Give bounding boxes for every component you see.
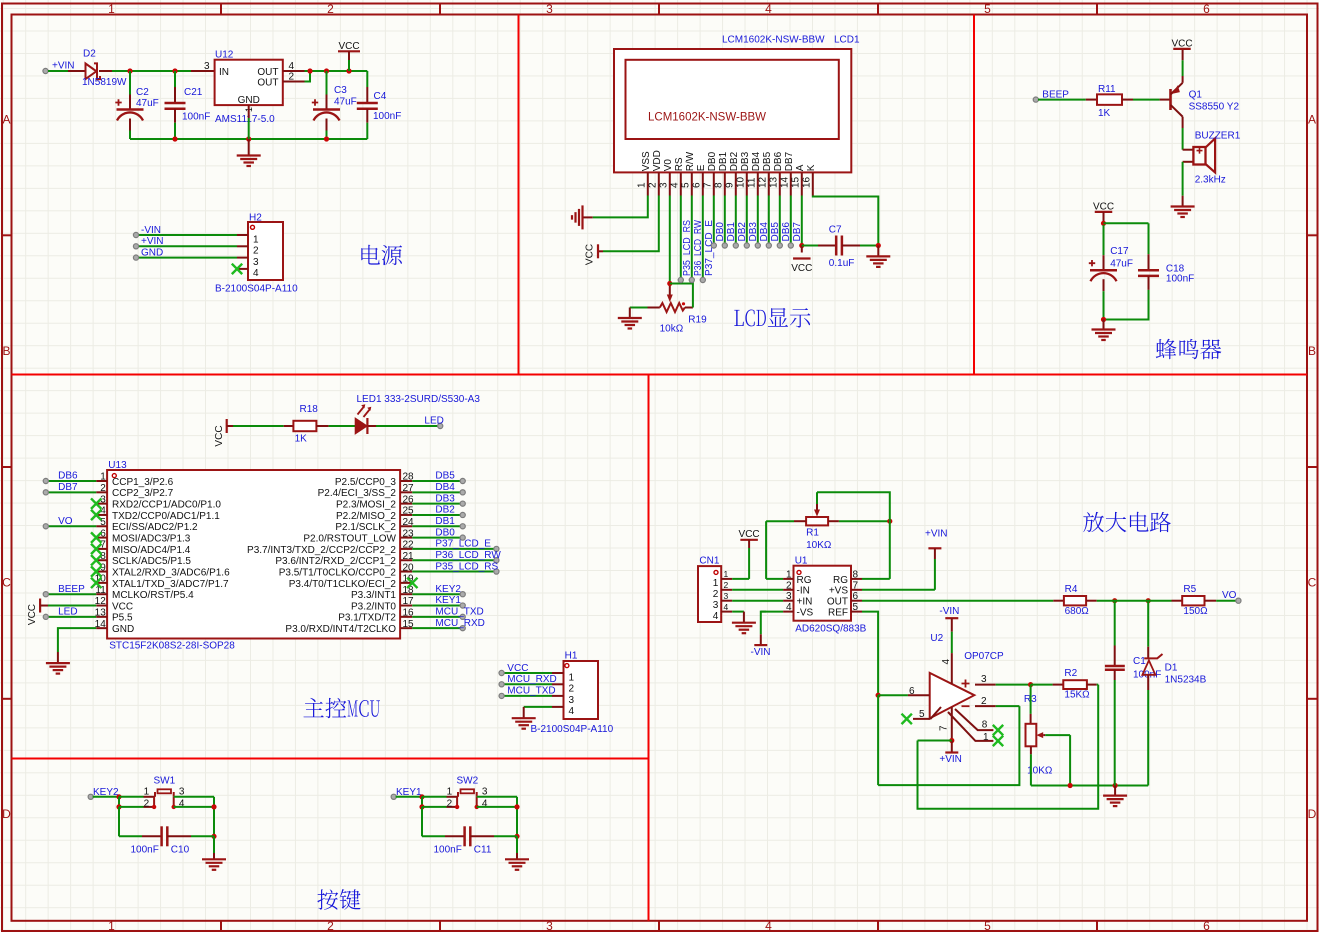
svg-text:7: 7	[853, 580, 859, 591]
svg-text:6: 6	[909, 686, 915, 697]
svg-text:1: 1	[713, 578, 719, 589]
svg-text:OUT: OUT	[257, 77, 278, 88]
svg-text:3: 3	[713, 600, 719, 611]
svg-text:+VIN: +VIN	[925, 529, 948, 540]
svg-text:14: 14	[780, 176, 791, 188]
svg-text:100nF: 100nF	[373, 111, 401, 122]
svg-text:DB4: DB4	[751, 151, 762, 171]
svg-text:4: 4	[941, 659, 952, 665]
svg-text:3: 3	[659, 182, 670, 188]
svg-text:C: C	[2, 576, 11, 590]
svg-text:1: 1	[253, 234, 259, 245]
svg-text:P2.4/ECI_3/SS_2: P2.4/ECI_3/SS_2	[318, 488, 397, 499]
svg-text:P2.3/MOSI_2: P2.3/MOSI_2	[336, 500, 396, 511]
svg-text:5: 5	[681, 182, 692, 188]
svg-text:DB1: DB1	[718, 151, 729, 171]
svg-text:2: 2	[100, 483, 106, 494]
svg-text:VCC: VCC	[791, 263, 812, 274]
svg-text:8: 8	[982, 720, 988, 731]
svg-text:DB2: DB2	[435, 505, 455, 516]
svg-text:1: 1	[637, 182, 648, 188]
svg-text:GND: GND	[112, 624, 134, 635]
svg-text:100nF: 100nF	[434, 845, 462, 856]
svg-text:2: 2	[327, 2, 334, 16]
svg-text:1: 1	[569, 672, 575, 683]
svg-text:B-2100S04P-A110: B-2100S04P-A110	[531, 724, 614, 735]
svg-text:VCC: VCC	[112, 601, 133, 612]
svg-text:1: 1	[108, 919, 115, 932]
svg-text:D2: D2	[83, 49, 96, 60]
svg-text:DB1: DB1	[435, 516, 455, 527]
svg-text:ECI/SS/ADC2/P1.2: ECI/SS/ADC2/P1.2	[112, 522, 198, 533]
svg-text:1: 1	[108, 2, 115, 16]
svg-text:100nF: 100nF	[1166, 274, 1194, 285]
svg-text:15KΩ: 15KΩ	[1064, 690, 1090, 701]
svg-text:3: 3	[179, 786, 185, 797]
svg-text:P36_LCD_RW: P36_LCD_RW	[435, 550, 501, 561]
svg-text:VCC: VCC	[338, 41, 359, 52]
svg-text:XTAL2/RXD_3/ADC6/P1.6: XTAL2/RXD_3/ADC6/P1.6	[112, 567, 230, 578]
svg-text:47uF: 47uF	[334, 97, 357, 108]
svg-text:P3.7/INT3/TXD_2/CCP2/CCP2_2: P3.7/INT3/TXD_2/CCP2/CCP2_2	[247, 545, 396, 556]
svg-text:DB5: DB5	[762, 151, 773, 171]
svg-text:GND: GND	[238, 95, 260, 106]
svg-text:C: C	[1308, 576, 1317, 590]
svg-text:3: 3	[204, 61, 210, 72]
svg-text:Q1: Q1	[1189, 89, 1203, 100]
svg-text:15: 15	[791, 176, 802, 188]
svg-text:IN: IN	[219, 67, 229, 78]
svg-text:4: 4	[289, 61, 295, 72]
svg-text:1N5234B: 1N5234B	[1165, 674, 1207, 685]
svg-text:-VIN: -VIN	[141, 225, 161, 236]
svg-text:AMS1117-5.0: AMS1117-5.0	[215, 114, 275, 125]
svg-text:STC15F2K08S2-28I-SOP28: STC15F2K08S2-28I-SOP28	[109, 641, 235, 652]
svg-text:DB6: DB6	[58, 471, 78, 482]
svg-text:2: 2	[569, 684, 575, 695]
svg-text:VCC: VCC	[739, 529, 760, 540]
svg-text:1: 1	[786, 569, 792, 580]
svg-text:P35_LCD_RS: P35_LCD_RS	[435, 561, 498, 572]
svg-text:+IN: +IN	[797, 597, 813, 608]
svg-text:VO: VO	[58, 516, 73, 527]
svg-text:U12: U12	[215, 50, 234, 61]
svg-text:4: 4	[713, 611, 719, 622]
svg-text:7: 7	[703, 182, 714, 188]
svg-text:B: B	[2, 344, 10, 358]
svg-text:GND: GND	[141, 247, 163, 258]
svg-text:R5: R5	[1183, 584, 1196, 595]
svg-text:6: 6	[1203, 919, 1210, 932]
svg-text:8: 8	[853, 569, 859, 580]
svg-text:A: A	[1308, 113, 1316, 127]
svg-text:C2: C2	[136, 87, 149, 98]
svg-text:R11: R11	[1098, 84, 1116, 95]
svg-text:VCC: VCC	[214, 425, 225, 446]
svg-text:+VIN: +VIN	[141, 236, 164, 247]
svg-text:4: 4	[253, 268, 259, 279]
svg-text:5: 5	[853, 602, 859, 613]
svg-text:LCD1: LCD1	[834, 35, 860, 46]
svg-text:VO: VO	[1222, 590, 1237, 601]
svg-text:47uF: 47uF	[136, 98, 159, 109]
svg-text:12: 12	[95, 596, 107, 607]
svg-text:R/W: R/W	[685, 151, 696, 171]
svg-text:P2.5/CCP0_3: P2.5/CCP0_3	[335, 477, 397, 488]
svg-text:4: 4	[670, 182, 681, 188]
svg-text:LED1 333-2SURD/S530-A3: LED1 333-2SURD/S530-A3	[357, 394, 481, 405]
svg-text:2: 2	[447, 798, 453, 809]
svg-text:REF: REF	[828, 608, 848, 619]
svg-text:B-2100S04P-A110: B-2100S04P-A110	[215, 284, 298, 295]
svg-text:1: 1	[447, 786, 453, 797]
svg-text:100nF: 100nF	[182, 112, 210, 123]
svg-text:H2: H2	[249, 213, 262, 224]
svg-text:4: 4	[724, 602, 729, 612]
svg-text:D1: D1	[1165, 663, 1178, 674]
svg-text:DB0: DB0	[435, 527, 455, 538]
svg-text:MCU_TXD: MCU_TXD	[435, 607, 483, 618]
svg-text:3: 3	[724, 591, 729, 601]
svg-text:DB5: DB5	[435, 471, 455, 482]
svg-text:MCU_RXD: MCU_RXD	[507, 674, 556, 685]
svg-text:6: 6	[853, 591, 859, 602]
svg-text:SCLK/ADC5/P1.5: SCLK/ADC5/P1.5	[112, 556, 191, 567]
svg-text:6: 6	[1203, 2, 1210, 16]
svg-text:OP07CP: OP07CP	[964, 651, 1004, 662]
svg-text:1K: 1K	[295, 434, 308, 445]
svg-text:1K: 1K	[1098, 108, 1111, 119]
svg-text:R4: R4	[1065, 584, 1078, 595]
svg-text:R19: R19	[688, 315, 707, 326]
svg-text:P3.3/INT1: P3.3/INT1	[351, 590, 396, 601]
svg-text:R1: R1	[806, 528, 819, 539]
svg-text:DB6: DB6	[773, 151, 784, 171]
svg-text:CCP2_3/P2.7: CCP2_3/P2.7	[112, 488, 174, 499]
svg-text:LED: LED	[58, 607, 77, 618]
svg-text:C17: C17	[1110, 246, 1129, 257]
svg-text:LED: LED	[424, 415, 443, 426]
svg-text:5: 5	[984, 2, 991, 16]
svg-text:0.1uF: 0.1uF	[829, 258, 855, 269]
svg-text:U1: U1	[795, 556, 808, 567]
svg-text:7: 7	[939, 725, 950, 731]
svg-text:13: 13	[769, 176, 780, 188]
svg-text:680Ω: 680Ω	[1065, 606, 1090, 617]
svg-text:VCC: VCC	[27, 604, 38, 625]
svg-text:OUT: OUT	[827, 597, 848, 608]
svg-text:C21: C21	[184, 87, 203, 98]
svg-text:R18: R18	[300, 404, 319, 415]
svg-text:P3.6/INT2/RXD_2/CCP1_2: P3.6/INT2/RXD_2/CCP1_2	[275, 556, 396, 567]
svg-text:1: 1	[983, 732, 989, 743]
svg-text:BUZZER1: BUZZER1	[1195, 131, 1241, 142]
svg-text:AD620SQ/883B: AD620SQ/883B	[795, 624, 866, 635]
svg-text:C3: C3	[334, 85, 347, 96]
svg-text:DB3: DB3	[740, 151, 751, 171]
svg-text:OUT: OUT	[257, 67, 278, 78]
svg-text:RG: RG	[797, 575, 812, 586]
svg-text:3: 3	[569, 695, 575, 706]
svg-text:P3.5/T1/T0CLKO/CCP0_2: P3.5/T1/T0CLKO/CCP0_2	[279, 567, 397, 578]
svg-text:R2: R2	[1064, 668, 1077, 679]
svg-text:P3.0/RXD/INT4/T2CLKO: P3.0/RXD/INT4/T2CLKO	[285, 624, 396, 635]
svg-text:1N5819W: 1N5819W	[82, 77, 127, 88]
svg-text:100nF: 100nF	[131, 845, 159, 856]
svg-text:2: 2	[327, 919, 334, 932]
svg-text:P5.5: P5.5	[112, 613, 133, 624]
svg-text:3: 3	[482, 786, 488, 797]
svg-text:C7: C7	[829, 225, 842, 236]
svg-text:2: 2	[144, 798, 150, 809]
svg-text:P2.0/RSTOUT_LOW: P2.0/RSTOUT_LOW	[303, 534, 396, 545]
svg-text:4: 4	[786, 602, 792, 613]
svg-text:KEY2: KEY2	[435, 584, 461, 595]
svg-text:DB7: DB7	[58, 482, 78, 493]
svg-text:K: K	[806, 164, 817, 171]
svg-text:CCP1_3/P2.6: CCP1_3/P2.6	[112, 477, 174, 488]
svg-text:14: 14	[95, 619, 107, 630]
svg-text:MISO/ADC4/P1.4: MISO/ADC4/P1.4	[112, 545, 191, 556]
svg-text:BEEP: BEEP	[58, 584, 85, 595]
svg-text:DB4: DB4	[435, 482, 455, 493]
svg-text:2: 2	[786, 580, 792, 591]
svg-text:2: 2	[724, 580, 729, 590]
svg-text:E: E	[696, 164, 707, 171]
svg-text:6: 6	[692, 182, 703, 188]
svg-text:-VIN: -VIN	[751, 647, 771, 658]
svg-text:P2.2/MISO_2: P2.2/MISO_2	[336, 511, 396, 522]
svg-text:DB7: DB7	[784, 151, 795, 171]
svg-text:MOSI/ADC3/P1.3: MOSI/ADC3/P1.3	[112, 534, 191, 545]
svg-text:LCM1602K-NSW-BBW: LCM1602K-NSW-BBW	[648, 112, 766, 124]
svg-text:DB3: DB3	[435, 493, 455, 504]
svg-text:47uF: 47uF	[1110, 258, 1133, 269]
svg-text:2: 2	[648, 182, 659, 188]
svg-text:VCC: VCC	[1171, 38, 1192, 49]
svg-text:150Ω: 150Ω	[1183, 606, 1208, 617]
svg-text:MCLKO/RST/P5.4: MCLKO/RST/P5.4	[112, 590, 194, 601]
svg-text:C10: C10	[171, 845, 190, 856]
svg-text:VCC: VCC	[585, 244, 596, 265]
svg-text:1: 1	[724, 569, 729, 579]
svg-text:RS: RS	[674, 157, 685, 171]
svg-text:A: A	[795, 164, 806, 171]
svg-text:2: 2	[253, 246, 259, 257]
svg-text:KEY1: KEY1	[435, 595, 461, 606]
svg-text:+VS: +VS	[829, 586, 849, 597]
svg-text:SW2: SW2	[457, 776, 479, 787]
svg-text:3: 3	[253, 257, 259, 268]
svg-text:RXD2/CCP1/ADC0/P1.0: RXD2/CCP1/ADC0/P1.0	[112, 500, 221, 511]
svg-text:5: 5	[919, 709, 925, 720]
svg-text:D: D	[1308, 807, 1317, 821]
svg-text:2: 2	[981, 696, 987, 707]
svg-text:C4: C4	[374, 91, 387, 102]
svg-text:1: 1	[144, 786, 150, 797]
svg-text:SS8550 Y2: SS8550 Y2	[1189, 102, 1240, 113]
svg-text:10: 10	[736, 176, 747, 188]
svg-text:3: 3	[546, 919, 553, 932]
svg-text:+VIN: +VIN	[939, 754, 962, 765]
svg-text:A: A	[2, 113, 10, 127]
svg-text:2.3kHz: 2.3kHz	[1195, 175, 1226, 186]
svg-text:4: 4	[765, 919, 772, 932]
svg-text:3: 3	[786, 591, 792, 602]
svg-text:MCU_RXD: MCU_RXD	[435, 618, 484, 629]
svg-text:VSS: VSS	[641, 151, 652, 171]
svg-text:P3.4/T0/T1CLKO/ECI_2: P3.4/T0/T1CLKO/ECI_2	[289, 579, 397, 590]
svg-text:P3.2/INT0: P3.2/INT0	[351, 601, 396, 612]
svg-text:3: 3	[546, 2, 553, 16]
svg-text:C11: C11	[474, 845, 492, 856]
svg-text:10kΩ: 10kΩ	[660, 324, 684, 335]
svg-text:U2: U2	[930, 633, 943, 644]
svg-text:16: 16	[802, 176, 813, 188]
svg-text:13: 13	[95, 608, 107, 619]
svg-text:3: 3	[981, 674, 987, 685]
svg-text:P37_LCD_E: P37_LCD_E	[435, 539, 491, 550]
svg-text:P3.1/TXD/T2: P3.1/TXD/T2	[338, 613, 396, 624]
svg-text:SW1: SW1	[154, 776, 176, 787]
svg-text:P2.1/SCLK_2: P2.1/SCLK_2	[335, 522, 396, 533]
svg-text:5: 5	[984, 919, 991, 932]
svg-text:LCM1602K-NSW-BBW: LCM1602K-NSW-BBW	[722, 35, 825, 46]
svg-text:-VIN: -VIN	[939, 606, 959, 617]
svg-text:DB0: DB0	[707, 151, 718, 171]
svg-text:2: 2	[289, 72, 295, 83]
svg-text:9: 9	[725, 182, 736, 188]
svg-text:12: 12	[758, 176, 769, 188]
svg-text:VCC: VCC	[507, 663, 528, 674]
svg-text:CN1: CN1	[699, 556, 719, 567]
svg-text:8: 8	[714, 182, 725, 188]
svg-text:-IN: -IN	[797, 586, 810, 597]
svg-text:TXD2/CCP0/ADC1/P1.1: TXD2/CCP0/ADC1/P1.1	[112, 511, 220, 522]
svg-text:D: D	[2, 807, 11, 821]
svg-text:RG: RG	[833, 575, 848, 586]
svg-text:H1: H1	[565, 651, 578, 662]
svg-text:U13: U13	[108, 460, 127, 471]
svg-text:-VS: -VS	[797, 608, 814, 619]
svg-text:DB2: DB2	[729, 151, 740, 171]
svg-text:4: 4	[765, 2, 772, 16]
svg-text:B: B	[1308, 344, 1316, 358]
svg-text:VDD: VDD	[652, 150, 663, 171]
svg-text:11: 11	[747, 177, 758, 188]
svg-text:+VIN: +VIN	[52, 61, 75, 72]
svg-text:XTAL1/TXD_3/ADC7/P1.7: XTAL1/TXD_3/ADC7/P1.7	[112, 579, 229, 590]
svg-text:V0: V0	[663, 159, 674, 172]
svg-text:MCU_TXD: MCU_TXD	[507, 686, 555, 697]
svg-text:1: 1	[100, 472, 106, 483]
svg-text:2: 2	[713, 589, 719, 600]
svg-text:4: 4	[569, 706, 575, 717]
svg-text:10KΩ: 10KΩ	[806, 540, 832, 551]
